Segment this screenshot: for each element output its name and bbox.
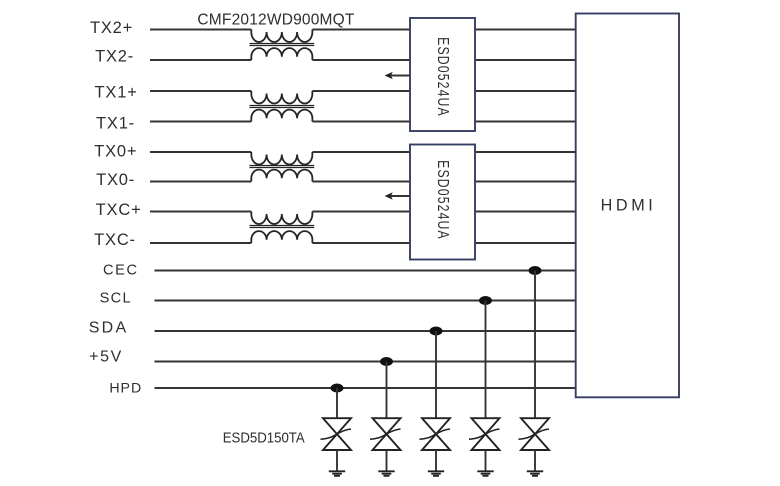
- wire TX2+ right: [312, 29, 410, 31]
- wire D2 to ground: [386, 450, 388, 471]
- wire TXC- right: [312, 242, 410, 244]
- svg-text:SCL: SCL: [100, 291, 132, 307]
- wire TX0- left: [150, 181, 251, 183]
- svg-text:TX2-: TX2-: [95, 48, 134, 66]
- wire SCL: [155, 300, 576, 302]
- svg-text:ESD0524UA: ESD0524UA: [434, 160, 452, 240]
- junction dot +5V: [380, 357, 393, 366]
- wire TX2+ left: [150, 29, 251, 31]
- ground GND1: [329, 471, 345, 476]
- ground GND4: [477, 471, 493, 476]
- wire HPD to D1: [336, 388, 338, 418]
- svg-text:TX2+: TX2+: [90, 19, 133, 37]
- junction dot CEC: [529, 266, 542, 275]
- common-mode choke L3 CMF2012WD900MQT (TX0 pair): [250, 152, 315, 182]
- svg-text:TX1+: TX1+: [95, 83, 138, 101]
- wire TX0+ ESD to HDMI: [475, 151, 576, 153]
- wire TX1+ ESD to HDMI: [475, 90, 576, 92]
- wire HPD: [155, 387, 576, 389]
- wire D3 to ground: [435, 450, 437, 471]
- wire TX0+ left: [150, 151, 251, 153]
- svg-text:TX0+: TX0+: [94, 142, 137, 160]
- svg-text:TXC+: TXC+: [96, 201, 142, 219]
- svg-text:+5V: +5V: [89, 348, 123, 365]
- wire D4 to ground: [485, 450, 487, 471]
- TVS diode D1 ESD5D150TA: [321, 418, 352, 450]
- wire TX2+ ESD to HDMI: [475, 29, 576, 31]
- wire TX2- ESD to HDMI: [475, 59, 576, 61]
- wire TX0- ESD to HDMI: [475, 181, 576, 183]
- wire TXC+ ESD to HDMI: [475, 211, 576, 213]
- common-mode choke L1 CMF2012WD900MQT (TX2 pair): [250, 30, 315, 61]
- TVS diode D2 ESD5D150TA: [370, 418, 401, 450]
- ground GND3: [428, 471, 444, 476]
- svg-text:TX0-: TX0-: [96, 171, 135, 189]
- svg-text:TX1-: TX1-: [96, 114, 135, 132]
- wire TX1+ left: [150, 90, 251, 92]
- wire +5V to D2: [386, 362, 388, 419]
- wire TX0+ right: [312, 151, 410, 153]
- ESD suppressor U2 ESD0524UA: [410, 145, 475, 260]
- wire CEC: [155, 270, 576, 272]
- wire TX1- right: [312, 121, 410, 123]
- svg-text:SDA: SDA: [89, 320, 129, 337]
- wire TX2- left: [150, 59, 251, 61]
- ground pin arrow U2: [385, 192, 410, 199]
- wire TX1+ right: [312, 90, 410, 92]
- junction dot SCL: [479, 296, 492, 305]
- svg-text:ESD5D150TA: ESD5D150TA: [223, 429, 305, 446]
- wire SDA to D3: [435, 331, 437, 418]
- wire CEC to D5: [534, 271, 536, 419]
- ground GND2: [378, 471, 394, 476]
- common-mode choke L4 CMF2012WD900MQT (TXC pair): [250, 212, 315, 244]
- wire SCL to D4: [485, 301, 487, 419]
- TVS diode D4 ESD5D150TA: [469, 418, 500, 450]
- svg-text:HPD: HPD: [109, 381, 142, 397]
- wire TXC+ left: [150, 211, 251, 213]
- TVS diode D5 ESD5D150TA: [519, 418, 550, 450]
- junction dot HPD: [331, 384, 344, 393]
- svg-text:HDMI: HDMI: [601, 196, 657, 214]
- wire +5V: [155, 361, 576, 363]
- wire TX2- right: [312, 59, 410, 61]
- svg-text:ESD0524UA: ESD0524UA: [434, 37, 452, 117]
- TVS diode D3 ESD5D150TA: [420, 418, 451, 450]
- junction dot SDA: [430, 327, 443, 336]
- svg-text:CMF2012WD900MQT: CMF2012WD900MQT: [197, 11, 355, 28]
- svg-text:TXC-: TXC-: [94, 231, 136, 249]
- wire TXC- ESD to HDMI: [475, 242, 576, 244]
- wire TX1- left: [150, 121, 251, 123]
- ground pin arrow U1: [385, 72, 410, 79]
- wire TXC+ right: [312, 211, 410, 213]
- wire TX0- right: [312, 181, 410, 183]
- wire D5 to ground: [534, 450, 536, 471]
- common-mode choke L2 CMF2012WD900MQT (TX1 pair): [250, 91, 315, 122]
- ESD suppressor U1 ESD0524UA: [410, 18, 475, 131]
- connector J1 HDMI: [576, 14, 679, 398]
- wire TXC- left: [150, 242, 251, 244]
- wire D1 to ground: [336, 450, 338, 471]
- wire TX1- ESD to HDMI: [475, 121, 576, 123]
- wire SDA: [155, 330, 576, 332]
- svg-text:CEC: CEC: [103, 262, 139, 278]
- ground GND5: [527, 471, 543, 476]
